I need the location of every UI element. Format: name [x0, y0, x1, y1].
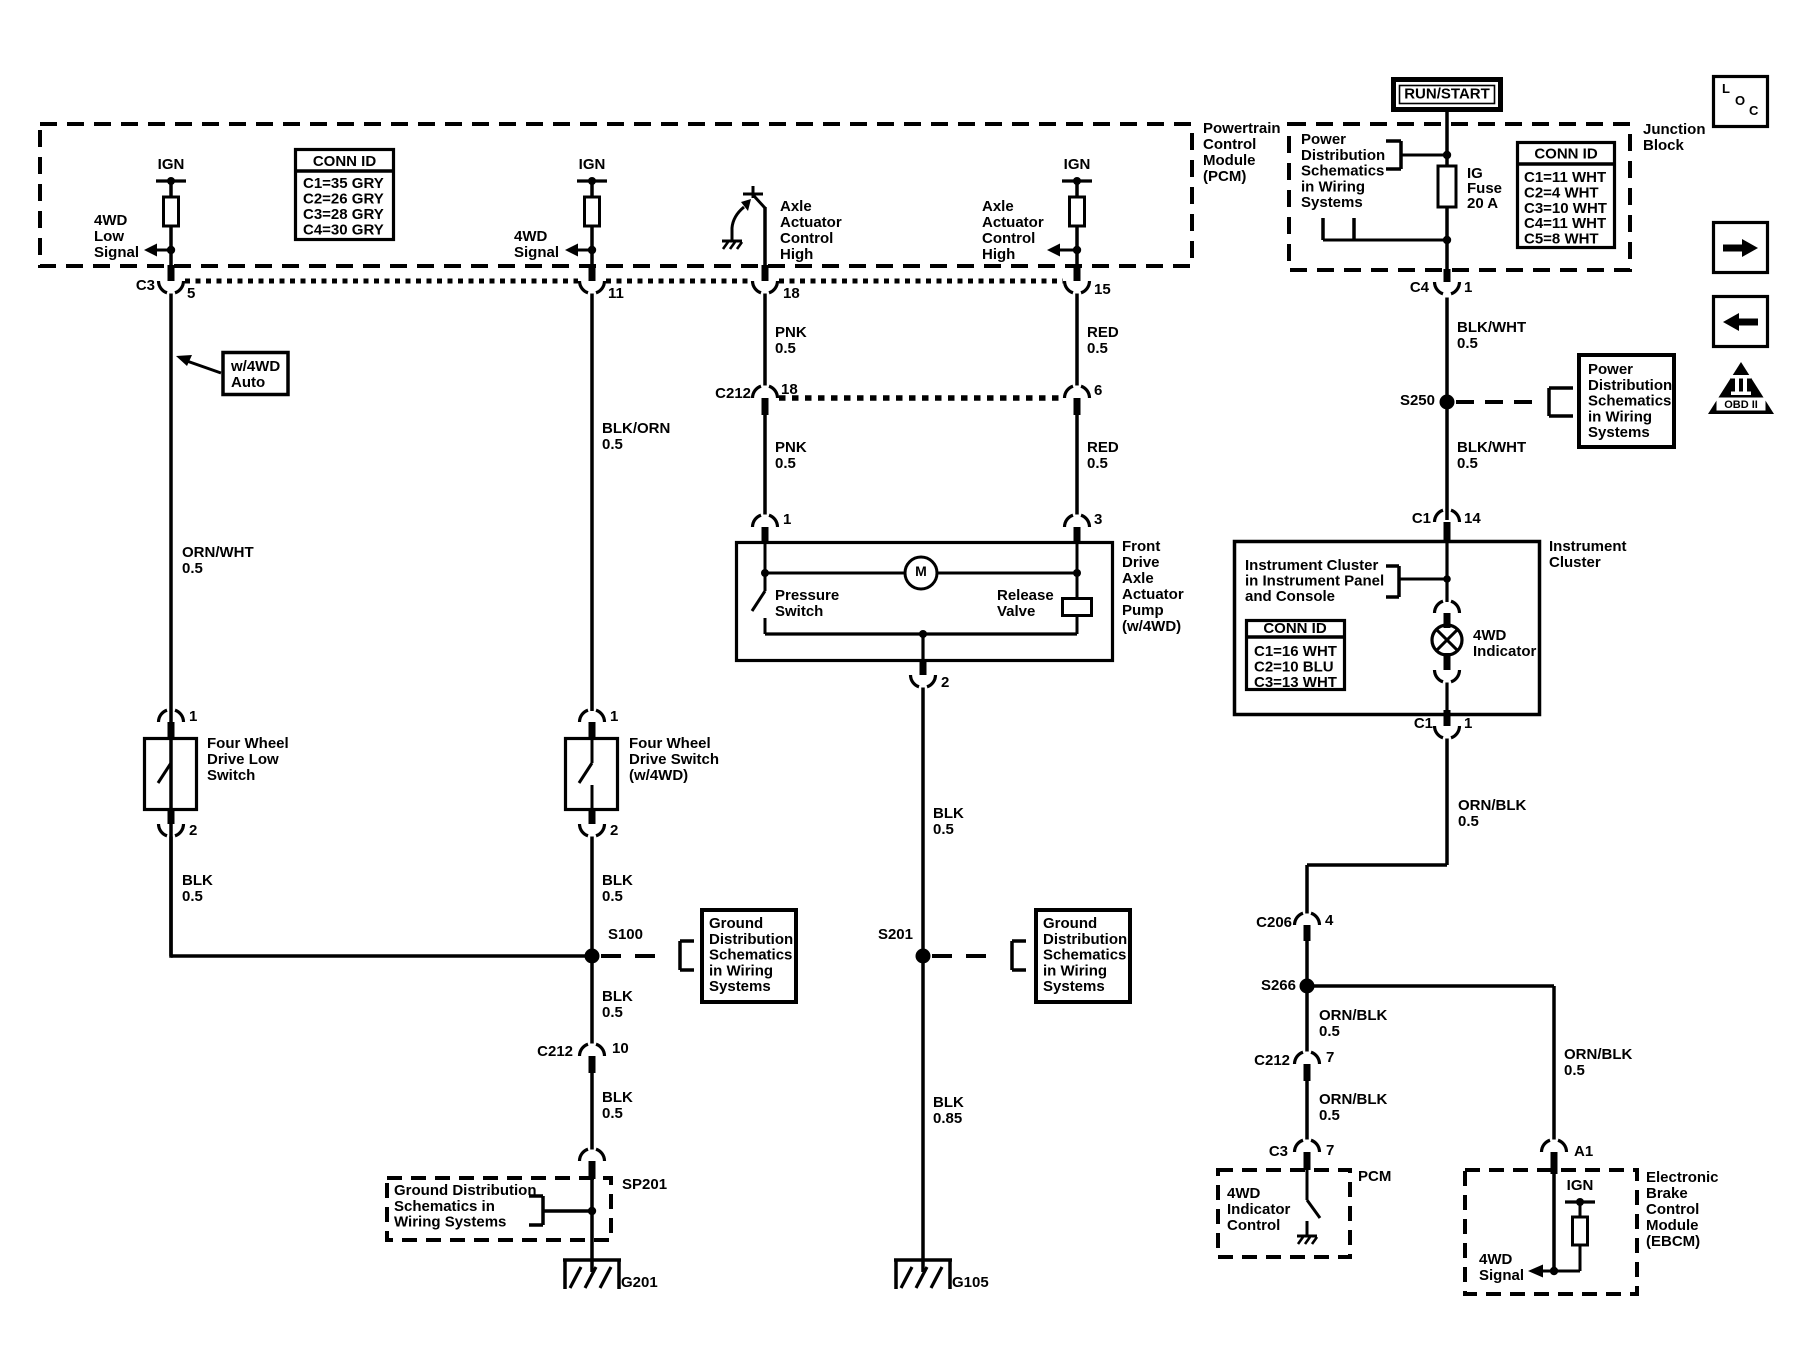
svg-text:Systems: Systems — [1301, 194, 1363, 211]
svg-text:(w/4WD): (w/4WD) — [629, 767, 688, 784]
svg-text:2: 2 — [610, 822, 618, 839]
svg-text:Axle: Axle — [982, 198, 1014, 215]
connector C4 pin 1 — [1444, 269, 1451, 282]
wire BLK 0.85 — [921, 956, 925, 1272]
svg-text:S201: S201 — [878, 926, 913, 943]
svg-text:in Wiring: in Wiring — [1043, 962, 1107, 979]
Junction Block dashed box — [1289, 124, 1630, 270]
svg-text:4WD: 4WD — [1227, 1185, 1261, 1202]
svg-text:G201: G201 — [621, 1274, 658, 1291]
wire RED upper — [1075, 294, 1079, 386]
svg-text:C206: C206 — [1256, 914, 1292, 931]
dash reference S100 — [601, 954, 668, 958]
svg-text:Schematics: Schematics — [709, 947, 792, 964]
EBCM dashed box — [1465, 1170, 1637, 1294]
svg-text:in Wiring: in Wiring — [709, 962, 773, 979]
arrow 4WD Low Signal — [144, 244, 157, 257]
driver switch 4WD Indicator Control — [1306, 1170, 1309, 1200]
svg-text:C5=8 WHT: C5=8 WHT — [1524, 231, 1599, 248]
svg-text:BLK/WHT: BLK/WHT — [1457, 319, 1526, 336]
svg-text:Four Wheel: Four Wheel — [629, 735, 711, 752]
svg-text:C1: C1 — [1412, 510, 1431, 527]
svg-text:Junction: Junction — [1643, 121, 1706, 138]
four wheel drive switch S2 — [566, 739, 618, 810]
node power distribution tap — [1443, 151, 1451, 159]
svg-text:High: High — [780, 246, 813, 263]
svg-text:SP201: SP201 — [622, 1176, 667, 1193]
svg-text:0.5: 0.5 — [1087, 340, 1108, 357]
svg-text:C1: C1 — [1414, 715, 1433, 732]
wire — [1075, 226, 1079, 266]
svg-text:BLK/WHT: BLK/WHT — [1457, 439, 1526, 456]
connector C3 pin 11 — [589, 265, 596, 281]
resistor 4WD Signal pull-up — [585, 197, 600, 226]
arrow Axle Actuator Control High — [1047, 244, 1060, 257]
svg-text:C212: C212 — [715, 385, 751, 402]
svg-text:Signal: Signal — [1479, 1267, 1524, 1284]
svg-text:Pump: Pump — [1122, 602, 1164, 619]
svg-text:0.5: 0.5 — [1458, 813, 1479, 830]
svg-text:14: 14 — [1464, 510, 1481, 527]
icon LOC box — [1714, 77, 1768, 127]
wire BLK/ORN col2 — [590, 294, 594, 712]
connector switch pin 1 col2 — [580, 710, 589, 722]
connector C1 pin 14 — [1435, 510, 1444, 522]
svg-text:10: 10 — [612, 1040, 629, 1057]
PCM CONN ID table — [296, 150, 394, 240]
connector C1 pin 15 — [1074, 265, 1081, 281]
svg-text:0.5: 0.5 — [182, 888, 203, 905]
svg-text:A1: A1 — [1574, 1143, 1593, 1160]
connector switch pin 1 col1 — [159, 710, 168, 722]
lamp 4WD Indicator — [1432, 625, 1462, 655]
resistor EBCM pull-up — [1573, 1217, 1588, 1245]
svg-text:Actuator: Actuator — [780, 214, 842, 231]
svg-text:15: 15 — [1094, 281, 1111, 298]
svg-text:0.5: 0.5 — [602, 436, 623, 453]
svg-text:Systems: Systems — [1588, 424, 1650, 441]
arrow 4WD Signal — [565, 244, 578, 257]
node cluster tap — [1443, 575, 1451, 583]
svg-text:O: O — [1735, 93, 1745, 108]
svg-text:(EBCM): (EBCM) — [1646, 1233, 1700, 1250]
svg-text:4WD: 4WD — [514, 228, 548, 245]
svg-text:ORN/WHT: ORN/WHT — [182, 544, 254, 561]
svg-text:20 A: 20 A — [1467, 195, 1498, 212]
svg-text:Actuator: Actuator — [1122, 586, 1184, 603]
svg-text:G105: G105 — [952, 1274, 989, 1291]
wire lamp to C1 pin1 — [1445, 683, 1448, 712]
node pressure switch — [761, 569, 769, 577]
svg-text:w/4WD: w/4WD — [230, 358, 280, 375]
svg-text:Control: Control — [982, 230, 1035, 247]
wire ORN/BLK S266 down — [1305, 986, 1309, 1052]
splice S100 — [585, 949, 600, 964]
svg-text:Schematics in: Schematics in — [394, 1198, 495, 1215]
wire — [169, 226, 173, 266]
svg-text:Indicator: Indicator — [1227, 1201, 1291, 1218]
svg-text:ORN/BLK: ORN/BLK — [1319, 1091, 1387, 1108]
svg-text:PCM: PCM — [1358, 1168, 1391, 1185]
connector C3 pin 5 — [168, 265, 175, 281]
svg-text:Switch: Switch — [775, 603, 823, 620]
node 4WD Low Signal branch — [167, 246, 175, 254]
svg-text:RED: RED — [1087, 439, 1119, 456]
wire to G201 — [590, 1179, 594, 1272]
svg-text:0.5: 0.5 — [602, 888, 623, 905]
svg-text:2: 2 — [189, 822, 197, 839]
connector A1 — [1542, 1140, 1551, 1152]
svg-text:1: 1 — [610, 708, 618, 725]
svg-text:Distribution: Distribution — [709, 931, 793, 948]
node Axle Actuator branch — [1073, 246, 1081, 254]
connector SP201 — [580, 1149, 589, 1161]
svg-text:S250: S250 — [1400, 392, 1435, 409]
wire to motor — [765, 572, 905, 575]
svg-text:Cluster: Cluster — [1549, 554, 1601, 571]
connector switch pin 2 col1 — [168, 810, 175, 824]
wire A1 down — [1552, 1174, 1556, 1271]
connector C206 pin 4 — [1295, 913, 1304, 925]
splice pack SP201 dashed box — [387, 1178, 611, 1240]
wire pump pin3 down — [1076, 542, 1079, 599]
svg-text:and Console: and Console — [1245, 588, 1335, 605]
four wheel drive low switch S1 — [145, 739, 197, 810]
reference box Ground Distribution S201 — [1036, 910, 1130, 1002]
cluster CONN ID table — [1247, 621, 1345, 690]
pump box Front Drive Axle Actuator Pump — [737, 543, 1113, 661]
svg-text:IGN: IGN — [158, 156, 185, 173]
svg-text:C3=28 GRY: C3=28 GRY — [303, 206, 384, 223]
svg-text:S266: S266 — [1261, 977, 1296, 994]
dash reference S201 — [932, 954, 1000, 958]
wire to lamp connector — [1445, 542, 1448, 602]
wire PNK upper — [763, 294, 767, 386]
svg-text:Switch: Switch — [207, 767, 255, 784]
svg-text:11: 11 — [608, 285, 624, 302]
svg-text:C1=35 GRY: C1=35 GRY — [303, 175, 384, 192]
wire PNK lower — [763, 415, 767, 515]
svg-text:L: L — [1722, 81, 1730, 96]
wire — [590, 226, 594, 266]
svg-text:C4: C4 — [1410, 279, 1430, 296]
splice S266 — [1300, 979, 1315, 994]
connector C212 pin 18 — [753, 386, 762, 398]
connector C212 pin 6 — [1065, 386, 1074, 398]
wire jog to C206 column — [1307, 863, 1447, 867]
node pump return — [919, 630, 927, 638]
svg-text:in Wiring: in Wiring — [1301, 178, 1365, 195]
IGN feed bar col2 — [577, 179, 607, 182]
icon back arrow box — [1714, 297, 1768, 347]
node SP201 tap — [588, 1207, 596, 1215]
IGN feed bar EBCM — [1565, 1200, 1595, 1203]
driver transistor Axle Actuator Control High col3 — [752, 186, 755, 198]
svg-text:Four Wheel: Four Wheel — [207, 735, 289, 752]
svg-text:Pressure: Pressure — [775, 587, 839, 604]
IGN feed bar col1 — [156, 179, 186, 182]
svg-text:IGN: IGN — [1567, 1177, 1594, 1194]
ground G201 — [563, 1258, 621, 1262]
svg-text:PNK: PNK — [775, 439, 807, 456]
svg-text:Distribution: Distribution — [1588, 377, 1672, 394]
wire ORN/BLK to C3 — [1305, 1081, 1309, 1140]
svg-text:Indicator: Indicator — [1473, 643, 1537, 660]
reference box Ground Distribution S100 — [702, 910, 796, 1002]
connector pump pin 3 — [1065, 515, 1074, 527]
pressure switch blade — [764, 573, 767, 591]
svg-text:Actuator: Actuator — [982, 214, 1044, 231]
wire pump return down — [921, 634, 924, 661]
svg-text:Axle: Axle — [1122, 570, 1154, 587]
svg-text:IGN: IGN — [579, 156, 606, 173]
connector C3 pin 7 — [1295, 1140, 1304, 1152]
svg-text:Drive Switch: Drive Switch — [629, 751, 719, 768]
svg-text:Control: Control — [1646, 1201, 1699, 1218]
wire resistor down — [1579, 1245, 1582, 1271]
wire pump pin1 to pressure switch — [764, 542, 767, 573]
svg-text:High: High — [982, 246, 1015, 263]
ground internal col3 — [722, 240, 742, 243]
connector switch pin 2 col2 — [589, 810, 596, 824]
svg-text:0.5: 0.5 — [775, 340, 796, 357]
svg-text:ORN/BLK: ORN/BLK — [1458, 797, 1526, 814]
svg-text:M: M — [915, 563, 927, 579]
resistor Axle Actuator pull-up — [1070, 197, 1085, 226]
node fuse output tap — [1443, 236, 1451, 244]
connector C1 pin 1 — [1444, 710, 1451, 726]
svg-text:Schematics: Schematics — [1043, 947, 1126, 964]
svg-text:0.5: 0.5 — [182, 560, 203, 577]
connector C212 pin 10 — [580, 1044, 589, 1056]
svg-text:4WD: 4WD — [94, 212, 128, 229]
svg-text:Electronic: Electronic — [1646, 1169, 1719, 1186]
svg-text:Release: Release — [997, 587, 1054, 604]
svg-text:RED: RED — [1087, 324, 1119, 341]
svg-text:Distribution: Distribution — [1043, 931, 1127, 948]
svg-text:Block: Block — [1643, 137, 1685, 154]
wire BLK col2 to SP201 — [590, 1073, 594, 1150]
svg-text:Auto: Auto — [231, 374, 265, 391]
svg-text:Drive Low: Drive Low — [207, 751, 279, 768]
icon forward arrow box — [1714, 223, 1768, 273]
svg-text:0.5: 0.5 — [1087, 455, 1108, 472]
svg-text:Systems: Systems — [709, 978, 771, 995]
svg-text:Ground Distribution: Ground Distribution — [394, 1182, 536, 1199]
svg-text:4WD: 4WD — [1479, 1251, 1513, 1268]
svg-text:BLK: BLK — [602, 1089, 633, 1106]
svg-text:Instrument: Instrument — [1549, 538, 1627, 555]
wire RUN/START to junction block — [1445, 110, 1449, 155]
wire branch to EBCM — [1307, 984, 1554, 988]
splice S250 — [1440, 395, 1455, 410]
svg-text:Instrument Cluster: Instrument Cluster — [1245, 557, 1379, 574]
node release valve — [1073, 569, 1081, 577]
svg-text:BLK: BLK — [602, 872, 633, 889]
svg-text:4: 4 — [1325, 912, 1334, 929]
svg-text:CONN ID: CONN ID — [313, 153, 377, 170]
svg-text:4WD: 4WD — [1473, 627, 1507, 644]
bracket under text — [1321, 218, 1325, 240]
svg-text:Power: Power — [1301, 131, 1346, 148]
ground internal PCM — [1297, 1235, 1317, 1238]
svg-text:7: 7 — [1326, 1049, 1334, 1066]
svg-text:0.5: 0.5 — [602, 1105, 623, 1122]
pump bottom bus wire — [765, 632, 1077, 635]
svg-text:S100: S100 — [608, 926, 643, 943]
svg-text:0.5: 0.5 — [933, 821, 954, 838]
svg-text:Module: Module — [1203, 152, 1256, 169]
wire ORN/WHT col1 — [169, 294, 173, 957]
fuse IG Fuse 20 A — [1438, 166, 1456, 207]
icon OBD II triangle — [1708, 362, 1774, 414]
svg-text:OBD II: OBD II — [1724, 399, 1758, 411]
svg-text:1: 1 — [1464, 715, 1472, 732]
svg-text:Front: Front — [1122, 538, 1160, 555]
svg-text:0.5: 0.5 — [602, 1004, 623, 1021]
svg-text:CONN ID: CONN ID — [1263, 620, 1327, 637]
svg-text:BLK: BLK — [182, 872, 213, 889]
wire release valve down — [1076, 616, 1079, 634]
wire C206 to S266 — [1305, 941, 1309, 986]
svg-text:Signal: Signal — [94, 244, 139, 261]
svg-text:0.5: 0.5 — [1457, 455, 1478, 472]
svg-text:2: 2 — [941, 674, 949, 691]
svg-text:18: 18 — [783, 285, 800, 302]
svg-text:Wiring Systems: Wiring Systems — [394, 1214, 506, 1231]
svg-text:BLK/ORN: BLK/ORN — [602, 420, 670, 437]
IGN feed bar col4 — [1062, 179, 1092, 182]
splice S201 — [916, 949, 931, 964]
svg-text:Control: Control — [1227, 1217, 1280, 1234]
svg-text:Schematics: Schematics — [1301, 163, 1384, 180]
release valve coil — [1063, 599, 1092, 616]
svg-text:6: 6 — [1094, 382, 1102, 399]
svg-text:C3: C3 — [1269, 1143, 1288, 1160]
PCM module dashed box — [40, 124, 1192, 266]
dotted line C212 — [779, 395, 1063, 401]
svg-text:Schematics: Schematics — [1588, 393, 1671, 410]
arrow 4WD Signal EBCM — [1528, 1265, 1543, 1278]
svg-text:C2=26 GRY: C2=26 GRY — [303, 191, 384, 208]
node 4WD Signal — [1550, 1267, 1558, 1275]
connector lamp top — [1435, 601, 1444, 613]
wire col3 to pin 18 — [763, 207, 767, 266]
svg-text:Powertrain: Powertrain — [1203, 120, 1281, 137]
wire col1 to S100 — [171, 954, 592, 958]
svg-text:0.5: 0.5 — [1319, 1107, 1340, 1124]
svg-text:7: 7 — [1326, 1142, 1334, 1159]
svg-text:CONN ID: CONN ID — [1534, 146, 1598, 163]
svg-text:1: 1 — [1464, 279, 1472, 296]
svg-text:Control: Control — [780, 230, 833, 247]
svg-text:C: C — [1749, 103, 1759, 118]
svg-text:Signal: Signal — [514, 244, 559, 261]
svg-text:(w/4WD): (w/4WD) — [1122, 618, 1181, 635]
motor M — [905, 557, 937, 589]
svg-text:5: 5 — [187, 285, 195, 302]
svg-text:in Instrument Panel: in Instrument Panel — [1245, 573, 1384, 590]
wire BLK col1 — [169, 837, 173, 958]
svg-text:Valve: Valve — [997, 603, 1035, 620]
svg-text:C4=30 GRY: C4=30 GRY — [303, 222, 384, 239]
svg-text:(PCM): (PCM) — [1203, 168, 1246, 185]
svg-text:Drive: Drive — [1122, 554, 1160, 571]
Junction Block CONN ID table — [1518, 143, 1615, 248]
svg-text:in Wiring: in Wiring — [1588, 408, 1652, 425]
wire motor to release valve node — [937, 572, 1077, 575]
svg-text:Power: Power — [1588, 361, 1633, 378]
resistor 4WD Low Signal pull-up — [164, 197, 179, 226]
svg-text:Systems: Systems — [1043, 978, 1105, 995]
svg-text:ORN/BLK: ORN/BLK — [1319, 1007, 1387, 1024]
connector C2 pin 18 — [762, 265, 769, 281]
svg-text:C3=13 WHT: C3=13 WHT — [1254, 674, 1337, 691]
svg-text:IGN: IGN — [1064, 156, 1091, 173]
svg-text:C212: C212 — [1254, 1052, 1290, 1069]
power feed RUN/START box — [1394, 80, 1501, 110]
svg-text:BLK: BLK — [933, 805, 964, 822]
connector pump pin 1 — [753, 515, 762, 527]
reference box Power Distribution S250 — [1579, 355, 1674, 447]
instrument cluster box — [1235, 542, 1540, 715]
wire ORN/BLK col5 — [1445, 739, 1449, 866]
svg-text:0.5: 0.5 — [1319, 1023, 1340, 1040]
wire RED lower — [1075, 415, 1079, 515]
svg-text:1: 1 — [189, 708, 197, 725]
svg-text:Brake: Brake — [1646, 1185, 1688, 1202]
svg-text:Control: Control — [1203, 136, 1256, 153]
svg-text:0.5: 0.5 — [775, 455, 796, 472]
connector pump pin 2 — [920, 661, 927, 675]
wire BLK col2 upper — [590, 837, 594, 957]
svg-text:Axle: Axle — [780, 198, 812, 215]
svg-text:Distribution: Distribution — [1301, 147, 1385, 164]
svg-text:BLK: BLK — [933, 1094, 964, 1111]
PCM dashed box bottom — [1218, 1170, 1350, 1257]
dash reference S250 — [1456, 400, 1540, 404]
svg-text:0.5: 0.5 — [1564, 1062, 1585, 1079]
ground G105 — [894, 1258, 952, 1262]
svg-text:0.85: 0.85 — [933, 1110, 962, 1127]
wire BLK/WHT upper — [1445, 298, 1449, 521]
node 4WD Signal branch — [588, 246, 596, 254]
svg-text:RUN/START: RUN/START — [1404, 86, 1490, 103]
svg-text:Ground: Ground — [709, 915, 763, 932]
svg-text:PNK: PNK — [775, 324, 807, 341]
svg-text:Ground: Ground — [1043, 915, 1097, 932]
wire BLK 0.5 pump return — [921, 688, 925, 957]
wire BLK col2 lower — [590, 956, 594, 1044]
svg-text:C3: C3 — [136, 277, 155, 294]
svg-text:3: 3 — [1094, 511, 1102, 528]
svg-text:Module: Module — [1646, 1217, 1699, 1234]
connector C212 pin 7 — [1295, 1052, 1304, 1064]
connector lamp bottom — [1444, 653, 1451, 670]
svg-text:ORN/BLK: ORN/BLK — [1564, 1046, 1632, 1063]
svg-text:1: 1 — [783, 511, 791, 528]
wire fuse to C4 — [1445, 207, 1449, 270]
harness dotted line — [185, 279, 578, 284]
wire into fuse — [1445, 155, 1449, 166]
svg-text:BLK: BLK — [602, 988, 633, 1005]
svg-text:C212: C212 — [537, 1043, 573, 1060]
svg-text:0.5: 0.5 — [1457, 335, 1478, 352]
svg-text:Low: Low — [94, 228, 124, 245]
label w/4WD Auto box — [223, 353, 288, 395]
wire 4WD Signal — [1543, 1270, 1580, 1273]
